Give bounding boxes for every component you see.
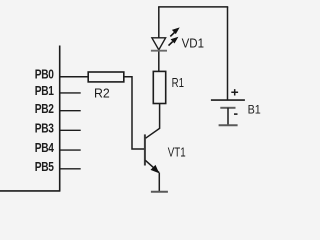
pin PB4 stub: [60, 149, 81, 151]
svg-text:VD1: VD1: [182, 37, 204, 51]
pin PB3 stub: [60, 129, 81, 131]
svg-text:PB3: PB3: [35, 121, 54, 135]
pin PB0 wire to R2: [60, 76, 89, 78]
transistor VT1 base bar: [144, 134, 146, 165]
LED VD1 triangle: [152, 38, 166, 50]
battery B1 negative short plate: [220, 107, 235, 109]
svg-text:R1: R1: [172, 76, 184, 90]
transistor VT1 collector lead: [146, 104, 160, 139]
wire LED cathode to R1 top: [158, 51, 160, 72]
emitter common terminal wire: [158, 173, 160, 192]
transistor VT1 emitter lead: [145, 160, 159, 172]
svg-text:PB4: PB4: [35, 141, 54, 155]
svg-text:VT1: VT1: [168, 145, 186, 159]
pin PB1 stub: [60, 92, 81, 94]
battery B1 minus sign: [234, 113, 238, 115]
svg-text:B1: B1: [248, 103, 261, 117]
svg-text:PB1: PB1: [35, 84, 54, 98]
microcontroller port box DD1 (partial, right edge + bottom edge): [0, 46, 60, 191]
svg-text:PB0: PB0: [35, 68, 54, 82]
pin PB5 stub: [60, 168, 81, 170]
wire R2 right to transistor base: [124, 77, 144, 149]
svg-text:R2: R2: [94, 87, 110, 101]
LED VD1 anode wire from top rail: [158, 7, 160, 38]
resistor R2 body: [88, 72, 124, 82]
battery B1 negative terminal bar: [219, 124, 238, 126]
right supply wire down to battery: [227, 7, 229, 100]
battery B1 plus sign: [231, 89, 238, 95]
svg-text:PB2: PB2: [35, 102, 54, 116]
svg-text:PB5: PB5: [35, 160, 54, 174]
top supply wire: [158, 6, 228, 8]
resistor R1 body: [153, 71, 165, 103]
pin PB2 stub: [60, 110, 81, 112]
LED VD1 emission arrow upper: [170, 32, 174, 36]
LED VD1 emission arrow lower: [169, 42, 173, 46]
LED VD1 cathode bar: [151, 50, 167, 52]
emitter common terminal bar: [151, 191, 168, 193]
battery B1 positive long plate: [211, 99, 245, 101]
battery B1 negative wire: [227, 108, 229, 125]
transistor VT1 emitter arrowhead: [151, 165, 160, 173]
